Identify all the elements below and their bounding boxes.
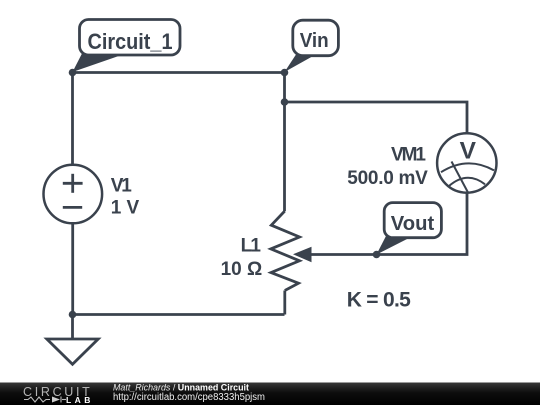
svg-text:10 Ω: 10 Ω: [221, 259, 263, 280]
svg-text:V1: V1: [111, 176, 132, 197]
svg-text:500.0 mV: 500.0 mV: [347, 168, 428, 189]
svg-text:1 V: 1 V: [111, 198, 140, 219]
svg-text:V: V: [460, 137, 477, 164]
svg-text:VM1: VM1: [391, 145, 426, 166]
svg-text:K = 0.5: K = 0.5: [347, 289, 411, 312]
svg-text:L1: L1: [241, 236, 262, 257]
svg-text:Vout: Vout: [391, 213, 435, 235]
svg-text:http://circuitlab.com/cpe8333h: http://circuitlab.com/cpe8333h5pjsm: [113, 392, 265, 403]
svg-text:Circuit_1: Circuit_1: [88, 29, 173, 54]
svg-text:Vin: Vin: [300, 29, 329, 52]
svg-text:LAB: LAB: [66, 395, 91, 405]
